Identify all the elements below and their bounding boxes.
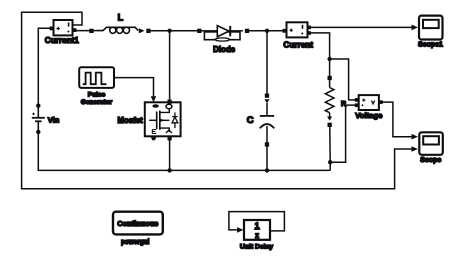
current measurement block Current (283, 22, 312, 37)
unit delay block 1/z (244, 220, 270, 240)
node: junction of L-Diode wire and Mosfet drain (167, 29, 171, 33)
wire: Voltage v-output to Scope input 1 (379, 102, 412, 137)
svg-text:Vin: Vin (48, 116, 60, 125)
node: port square at diode cathode (245, 29, 249, 33)
node: port square at diode anode (197, 29, 201, 33)
node: Mosfet drain port square (168, 100, 172, 104)
wire: node down to resistor R top (329, 59, 331, 76)
diode D (202, 26, 244, 42)
svg-text:Pulse: Pulse (88, 92, 106, 99)
resistor R branch (325, 76, 334, 127)
node: junction of bottom rail and capacitor C bottom (265, 168, 269, 172)
wire: Current1 output to inductor L (74, 30, 97, 32)
DC voltage source Vin (32, 104, 45, 135)
wire: arrowhead down into Mosfet gate (151, 96, 157, 102)
wire: Current i-output to Scope1 (308, 26, 412, 28)
svg-text:R: R (341, 99, 347, 108)
wire: Vin negative terminal down and along inner bottom rail (38, 132, 330, 170)
mosfet block (145, 102, 181, 140)
svg-text:L: L (118, 13, 124, 23)
node: junction of resistor R branch and Voltage + tap (327, 57, 331, 61)
svg-text:Diode: Diode (213, 45, 236, 54)
svg-text:Scope: Scope (420, 157, 441, 164)
wire: unit delay feedback loop (229, 212, 285, 231)
svg-text:Unit Delay: Unit Delay (240, 243, 273, 250)
wire: Mosfet source down to bottom rail (169, 136, 171, 170)
wire: Voltage - input down to bottom node (330, 105, 355, 162)
voltage measurement block Voltage (355, 95, 383, 110)
capacitor C branch (260, 94, 274, 147)
scope block Scope (419, 132, 443, 155)
wire: node across to Voltage + input (330, 59, 355, 100)
node: Mosfet source port square (168, 136, 172, 140)
pulse generator block (79, 67, 114, 88)
node: port square between Current1 and L (89, 29, 93, 33)
wire: arrowhead into Scope input 1 (412, 134, 419, 140)
svg-text:Mosfet: Mosfet (117, 116, 143, 125)
svg-text:1: 1 (255, 221, 260, 230)
wire: Pulse Generator output to Mosfet gate (114, 78, 154, 97)
wire: inductor L to Diode, with junction to Mosfet drain (151, 30, 199, 32)
wire: Diode cathode to Current + input (249, 30, 287, 32)
node: junction of R bottom and Voltage - wire (328, 160, 332, 164)
wire: Current - output right and down to node above resistor R (308, 33, 330, 59)
svg-text:Continuous: Continuous (117, 219, 158, 228)
node: junction of bottom rail and Mosfet source (167, 168, 171, 172)
svg-text:Generator: Generator (81, 99, 113, 106)
wire: capacitor C bottom to bottom rail (266, 147, 268, 171)
wire: arrowhead into Scope1 input (412, 25, 419, 31)
node: junction of Diode-Current wire and capacitor C branch (265, 29, 269, 33)
scope block Scope1 (419, 16, 443, 40)
node: port square between L and diode wire (146, 29, 150, 33)
wire: resistor R bottom to junction and down to bottom rail (329, 127, 331, 170)
svg-text:powergui: powergui (121, 239, 150, 246)
wire: junction down to capacitor C (266, 31, 268, 94)
current measurement block Current1 (50, 20, 77, 35)
wire: Vin positive terminal up to Current1 + input (38, 28, 51, 105)
inductor L (97, 27, 145, 33)
wire: arrowhead into Scope input 2 (412, 146, 419, 152)
wire: Current1 i-output loop around left/bottom to Scope input 2 (22, 12, 412, 189)
wire: arrowhead into unit delay input (237, 227, 244, 233)
powergui block Continuous (113, 212, 163, 235)
svg-text:Current1: Current1 (45, 36, 80, 45)
svg-text:Voltage: Voltage (355, 111, 383, 120)
svg-text:z: z (255, 231, 259, 240)
svg-text:C: C (247, 115, 254, 126)
svg-text:Scope1: Scope1 (418, 42, 443, 49)
svg-text:Current: Current (283, 41, 313, 50)
wire: junction down to Mosfet drain (169, 31, 171, 105)
